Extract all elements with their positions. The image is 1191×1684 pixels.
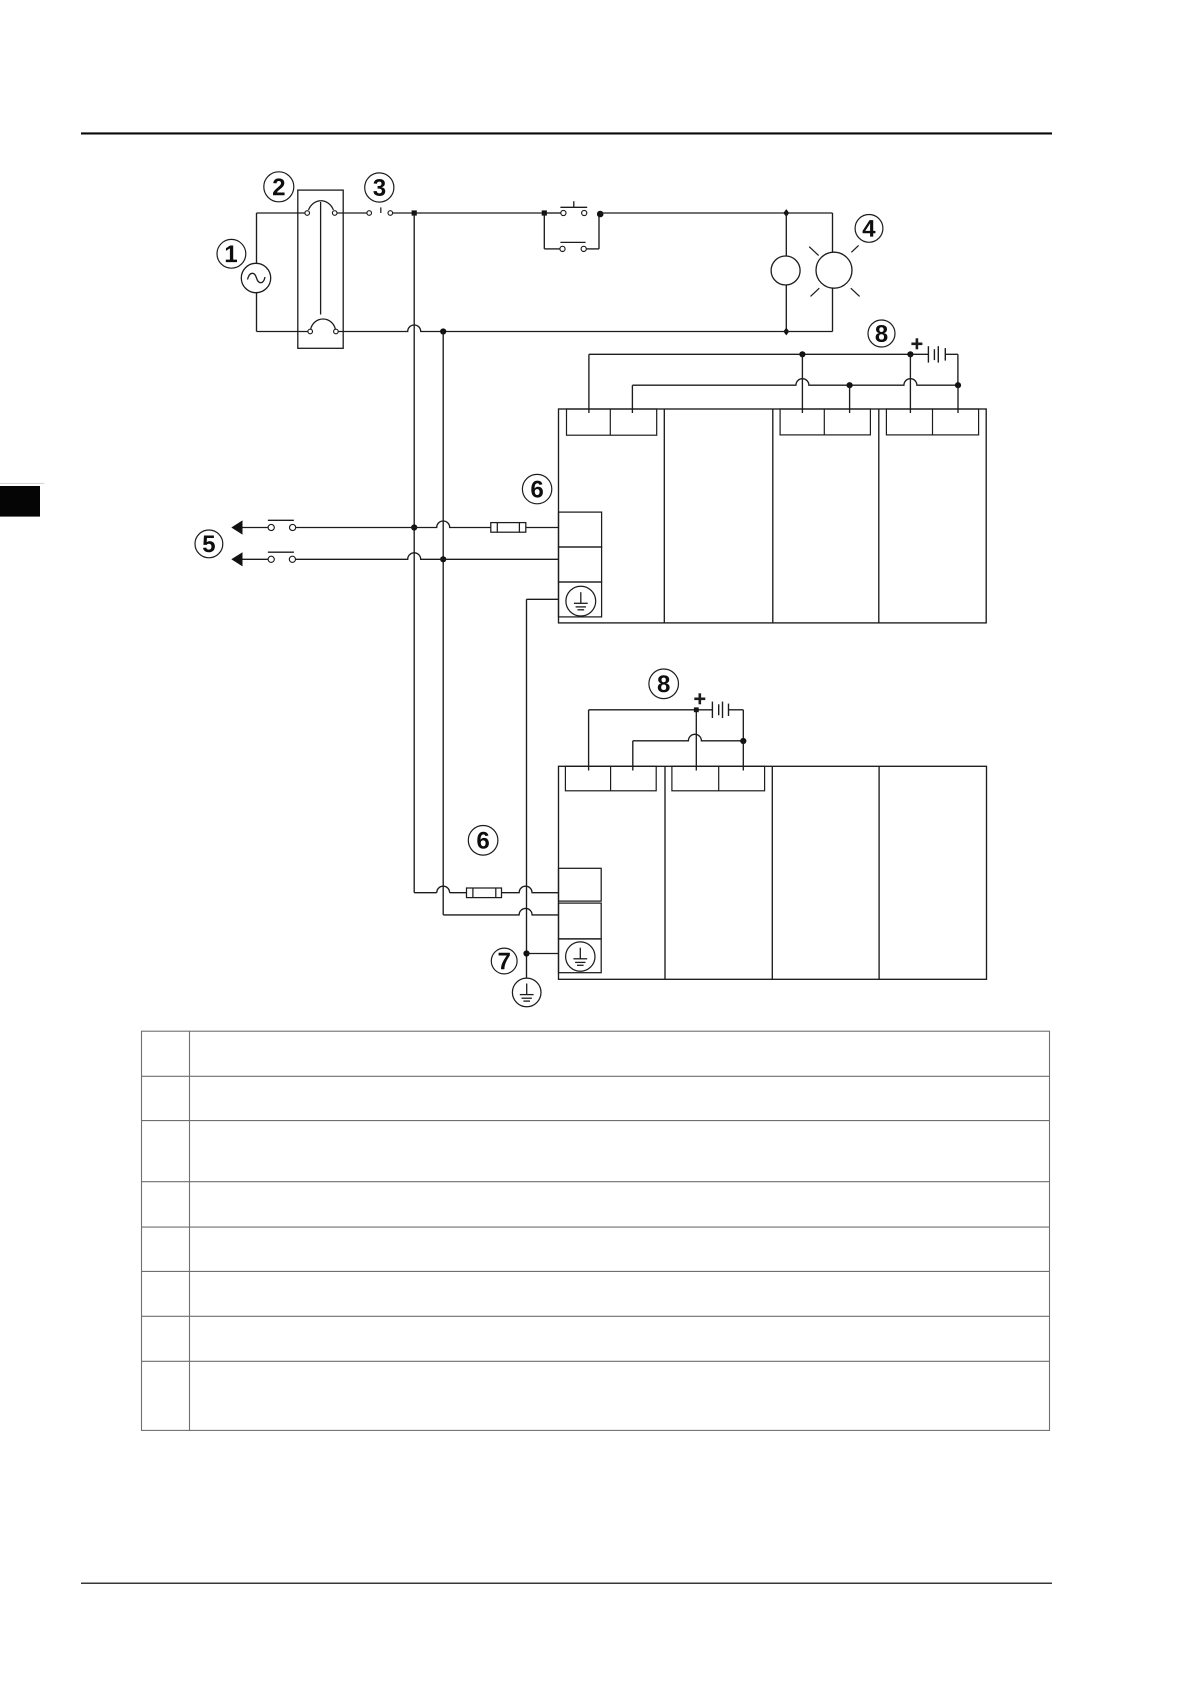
ground terminal box 2 [559,939,602,973]
pin drop [801,354,803,413]
pushbutton S2 [542,201,604,251]
terminal block PSU [567,409,657,435]
wire 24V- rack2 with hop [633,734,744,741]
callout 1 [217,239,246,268]
node A junction [412,210,417,215]
pin drop [631,385,633,413]
node E junction [411,524,417,530]
node B junction [783,209,789,217]
power terminal B2 [559,903,602,939]
pin drop [588,710,590,771]
callout 2 [264,172,294,202]
callout 5 [195,530,223,558]
wire with hop [296,553,559,559]
terminal block PSU 2 [565,766,656,791]
load circle M1 [771,213,800,332]
pin drop [632,741,634,771]
node K junction [523,950,529,956]
module divider [878,766,880,979]
wire 24V- distribution with hops [632,379,958,385]
plus label 2 [694,693,705,704]
arrow to external device 2 [231,552,268,566]
AC source G1 [241,263,270,292]
wire 24V+ rack2 [589,709,713,711]
wire feeder N [442,332,444,915]
PLC base unit 2 outline [559,766,987,979]
node F junction [440,556,446,562]
power terminal A1 [559,512,602,547]
battery B2 [712,702,743,741]
page edge tab [0,486,40,517]
PE terminal circle 1 [566,586,596,616]
terminal block module 3 [780,409,870,435]
callout 4 [855,215,883,243]
callout 6 second [468,826,498,856]
callout 6 [522,474,551,503]
isolation transformer T1 [298,190,343,348]
power terminal B1 [559,547,602,582]
pin drop [909,354,911,413]
wire [257,331,309,333]
node I junction [847,382,853,388]
fuse F1 [491,523,526,533]
module divider [878,409,880,623]
callout 7 [491,948,517,974]
power terminal A2 [559,868,602,901]
callout 8 second [649,669,679,699]
battery plus drop [695,710,697,771]
wire [526,527,559,529]
node G junction [799,351,805,357]
callout 8 [868,320,895,347]
node D junction [440,328,446,334]
wire [600,212,786,214]
header rule [81,132,1052,134]
switch contact S3a [268,520,296,530]
pin drop [588,354,590,413]
module divider [664,766,666,979]
arrow to external device [231,520,268,534]
wire [786,212,832,214]
node H junction [907,351,913,357]
lamp PL1 [809,213,859,332]
module divider [663,409,665,623]
wire [502,886,559,892]
PE terminal circle 2 [566,942,595,971]
fuse F2 [467,888,502,898]
wire 24V+ distribution [589,353,929,355]
wire with hop [296,521,491,528]
pin drop [849,385,851,413]
ground wire rack1 [527,598,559,600]
wire [337,212,367,214]
callout 3 [365,173,394,202]
wire feeder L [413,213,415,893]
wire [414,212,542,214]
node C junction [783,328,789,336]
PLC base unit 1 outline [559,409,987,623]
wire [393,212,415,214]
pin drop [742,741,744,771]
disconnect switch S1 [367,207,393,215]
wire rack2 L with hops [414,886,466,892]
node L junction [694,707,699,712]
plus label [911,338,922,349]
pin drop [957,385,959,413]
wire [257,212,306,214]
terminal block module 4 [886,409,978,435]
battery B1 [928,346,958,385]
terminal block module 2-2 [672,766,765,791]
node J junction [955,382,961,388]
legend table [142,1031,1050,1430]
node M junction [740,738,746,744]
switch contact S3b [268,552,296,562]
page edge tab shadow line [0,483,44,484]
module divider [772,409,774,623]
ground wire rack2 [527,953,559,955]
wire bottom return with hop [338,325,786,332]
wire rack2 N with hop [443,908,558,914]
earth ground electrode [512,978,541,1007]
footer rule [81,1583,1052,1584]
module divider [771,766,773,979]
wire [786,331,832,333]
wire [256,213,258,332]
ground terminal box 1 [559,582,602,617]
ground wire vertical [526,599,528,978]
